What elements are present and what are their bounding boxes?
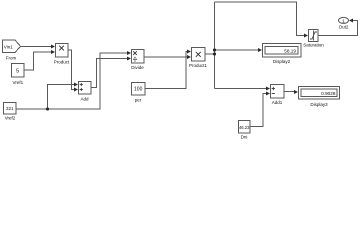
From block Vin1 [3, 40, 21, 53]
svg-text:5: 5 [16, 69, 19, 75]
arrowhead into Add1 in1 [266, 86, 270, 90]
arrowhead into Divide in1 [127, 51, 131, 55]
svg-text:Divide: Divide [131, 65, 144, 70]
Divide block [132, 50, 145, 64]
constant Dni value 46.23 [239, 121, 251, 134]
svg-text:100: 100 [134, 87, 143, 93]
arrowhead into Add in1 [74, 82, 78, 86]
constant Vref2 value 321 [4, 103, 17, 115]
saturation icon [310, 31, 317, 41]
wire Add1 out to Display3 [284, 91, 295, 93]
constant per value 100 [132, 83, 146, 96]
Display3 block [299, 87, 340, 100]
arrowhead into Product in2 [51, 50, 55, 54]
svg-text:Out2: Out2 [339, 24, 349, 29]
svg-text:per: per [135, 97, 142, 102]
outport Out2 [339, 17, 349, 23]
Product1 block [192, 48, 206, 62]
svg-text:58.19: 58.19 [284, 49, 296, 54]
Product1 multiply sign [196, 52, 201, 57]
svg-text:321: 321 [6, 106, 14, 111]
svg-text:46.23: 46.23 [239, 125, 250, 130]
wire Dni to Add1 in2 [250, 94, 267, 127]
wire junction to Display2 [215, 49, 260, 51]
arrowhead into Product1 in2 [187, 55, 191, 59]
arrowhead into Display2 [258, 48, 262, 52]
svg-text:From: From [6, 56, 17, 61]
svg-text:Dni: Dni [241, 135, 248, 140]
arrowhead into Add in2 [74, 87, 78, 91]
arrowhead into Display3 [294, 90, 298, 94]
wire Product out to Add in2 [68, 50, 75, 90]
wire per to Product1 in1 [145, 52, 188, 89]
wire junction to Add1 in1 [215, 88, 268, 90]
svg-text:0.9028: 0.9028 [321, 91, 336, 96]
arrowhead into Saturation [304, 33, 308, 37]
Product multiply sign [59, 46, 64, 51]
svg-text:Product: Product [54, 59, 70, 64]
arrowhead into Product in1 [51, 44, 55, 48]
node junction dot Display2 branch [213, 48, 216, 51]
wire Product1 out to junction [205, 53, 215, 55]
arrowhead into Divide in2 [127, 56, 131, 60]
Saturation block [309, 30, 319, 42]
node junction dot Vref2 branch [46, 107, 49, 110]
Add plus signs [80, 83, 83, 86]
svg-text:Product1: Product1 [189, 63, 208, 68]
svg-text:Add1: Add1 [272, 100, 283, 105]
Add block [79, 82, 92, 95]
svg-text:Saturation: Saturation [303, 43, 324, 48]
wire junction vertical [214, 2, 216, 89]
node junction dot Product1 out [213, 52, 216, 55]
wire Vref2 branch to Add in1 [48, 85, 76, 110]
Display2 block [263, 44, 302, 58]
arrowhead into Add1 in2 [266, 91, 270, 95]
constant Vref1 value 5 [12, 64, 25, 78]
Divide signs [133, 51, 137, 55]
wire Saturation out to Out2 [318, 21, 358, 36]
Product block [56, 44, 69, 58]
wire Vref1 to Product in2 [24, 52, 52, 70]
wire Add out to Divide in2 [91, 59, 128, 88]
Add1 signs [272, 87, 275, 90]
arrowhead into Out2 [349, 19, 353, 23]
Add1 block [271, 85, 285, 99]
wire junction to Saturation [215, 2, 306, 36]
arrowhead into Product1 in1 [187, 49, 191, 53]
svg-text:Display2: Display2 [273, 59, 291, 64]
wire Vref2 to Divide in1 [15, 53, 128, 109]
wire Divide out to Product1 in2 [144, 56, 188, 58]
svg-text:Display3: Display3 [310, 102, 328, 107]
svg-text:Vref2: Vref2 [5, 115, 16, 120]
svg-text:Add: Add [80, 96, 89, 101]
wire Vin1 to Product in1 [20, 46, 52, 48]
svg-text:Vin1: Vin1 [4, 44, 13, 49]
svg-text:Vref1: Vref1 [13, 80, 24, 85]
